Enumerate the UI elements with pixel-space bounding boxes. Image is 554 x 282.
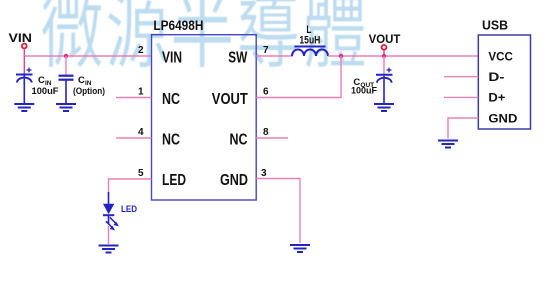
inductor L 15uH bbox=[292, 47, 328, 57]
svg-text:VOUT: VOUT bbox=[369, 32, 401, 46]
wire pin 7 / SW to inductor bbox=[256, 55, 293, 57]
svg-text:USB: USB bbox=[482, 18, 508, 33]
svg-text:C: C bbox=[38, 75, 45, 86]
wire CIN option lead bbox=[65, 56, 67, 76]
svg-text:GND: GND bbox=[488, 111, 517, 125]
ground (CIN option) bbox=[56, 104, 76, 111]
wire D+ stub bbox=[444, 96, 478, 98]
wire VOUT vertical bbox=[383, 50, 385, 56]
svg-text:8: 8 bbox=[263, 127, 269, 138]
node VIN circle bbox=[22, 44, 27, 49]
capacitor C_IN (Option) bbox=[59, 76, 74, 104]
svg-text:NC: NC bbox=[230, 132, 248, 149]
svg-text:100uF: 100uF bbox=[32, 86, 60, 96]
svg-text:VIN: VIN bbox=[162, 50, 182, 67]
capacitor C_OUT 100uF bbox=[376, 68, 393, 104]
wire pin 6 VOUT bbox=[256, 56, 341, 98]
wire CIN lead bbox=[23, 56, 25, 74]
svg-text:NC: NC bbox=[162, 132, 180, 149]
svg-text:5: 5 bbox=[138, 168, 144, 179]
wire pin 3 GND to ground bbox=[256, 179, 300, 244]
IC U1 LP6498H box bbox=[152, 35, 257, 200]
svg-text:(Option): (Option) bbox=[73, 86, 105, 96]
svg-text:VIN: VIN bbox=[9, 31, 33, 45]
wire LED cathode to ground bbox=[108, 226, 110, 244]
junction dot (SW/VOUT) bbox=[339, 54, 343, 58]
wire pin 5 to LED bbox=[109, 179, 152, 196]
svg-text:SW: SW bbox=[228, 50, 247, 67]
svg-text:100uF: 100uF bbox=[351, 86, 377, 96]
label C_IN 100uF bbox=[32, 75, 60, 96]
label C_OUT 100uF bbox=[351, 77, 377, 96]
node VOUT circle bbox=[382, 45, 387, 50]
capacitor C_IN 100uF bbox=[16, 68, 33, 104]
ground (CIN) bbox=[14, 104, 34, 111]
svg-text:2: 2 bbox=[138, 45, 144, 56]
label C_IN (Option) bbox=[73, 75, 105, 96]
svg-text:C: C bbox=[78, 75, 85, 86]
wire pin 8 stub bbox=[256, 137, 288, 139]
svg-text:6: 6 bbox=[263, 87, 269, 98]
svg-text:3: 3 bbox=[261, 168, 267, 179]
wire VIN rail to pin 2 bbox=[24, 55, 151, 57]
svg-text:15uH: 15uH bbox=[299, 35, 320, 47]
svg-text:GND: GND bbox=[220, 172, 248, 189]
junction dot (VOUT/COUT) bbox=[382, 54, 386, 58]
svg-text:LED: LED bbox=[121, 204, 137, 214]
wire VIN vertical to rail bbox=[23, 49, 25, 56]
svg-text:LP6498H: LP6498H bbox=[153, 18, 203, 33]
ground (USB) bbox=[438, 141, 458, 148]
svg-text:D-: D- bbox=[488, 70, 504, 84]
svg-text:NC: NC bbox=[162, 91, 180, 108]
watermark 微源半導體 bbox=[42, 0, 364, 67]
wire pin 4 stub bbox=[116, 137, 152, 139]
wire COUT lead bbox=[383, 56, 385, 74]
ground (COUT) bbox=[374, 104, 394, 111]
ground (LED) bbox=[99, 246, 119, 253]
wire USB GND to ground bbox=[448, 118, 478, 139]
svg-text:7: 7 bbox=[263, 45, 269, 56]
ground (pin 3) bbox=[290, 245, 310, 252]
wire inductor to VCC rail bbox=[328, 55, 478, 57]
svg-text:D+: D+ bbox=[488, 91, 505, 105]
svg-text:1: 1 bbox=[138, 87, 144, 98]
junction dot (CIN option) bbox=[64, 54, 68, 58]
wire D- stub bbox=[444, 76, 478, 78]
svg-text:4: 4 bbox=[138, 127, 144, 138]
svg-text:VOUT: VOUT bbox=[212, 91, 248, 108]
svg-text:VCC: VCC bbox=[488, 49, 513, 63]
LED D1 bbox=[103, 192, 119, 230]
wire pin 1 stub bbox=[116, 97, 152, 99]
svg-text:LED: LED bbox=[162, 172, 186, 189]
connector J1 USB box bbox=[478, 35, 530, 129]
